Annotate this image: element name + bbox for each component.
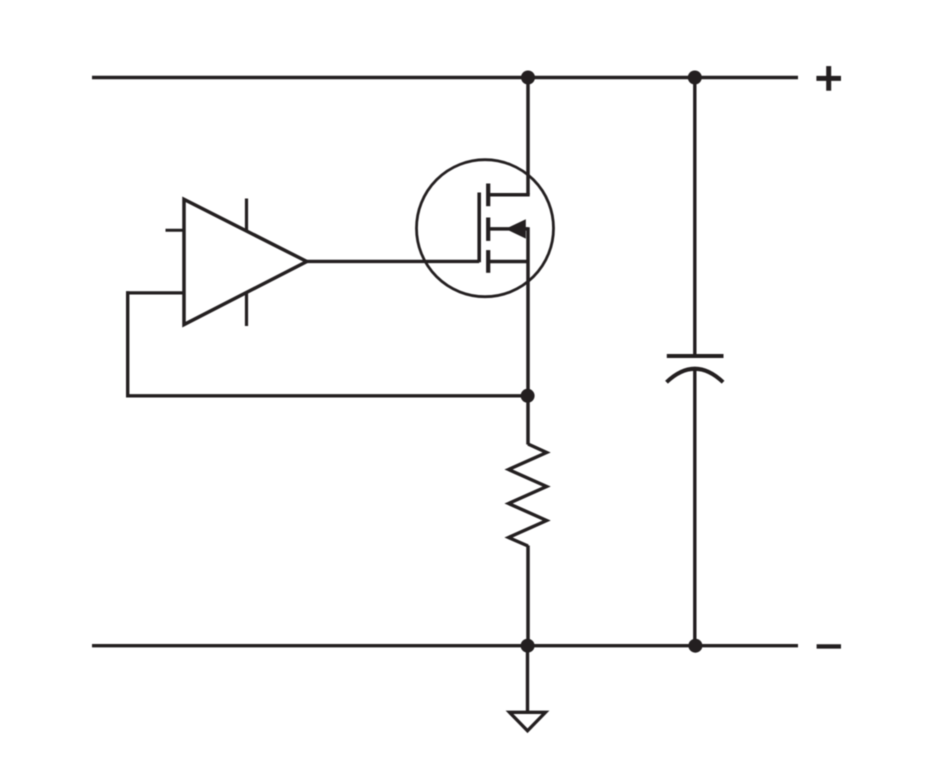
- node: junction dot, capacitor branch on top rail: [688, 71, 702, 85]
- wire: source/body lead down from MOSFET to feedback node: [526, 227, 530, 396]
- node: junction dot, source/feedback/resistor node: [521, 389, 535, 403]
- wire: V+ top supply rail: [92, 76, 798, 80]
- ground symbol: [510, 712, 546, 731]
- label: + positive terminal: [816, 66, 841, 91]
- wire: feedback left vertical: [126, 291, 129, 397]
- wire: drain lead from top rail to MOSFET: [526, 78, 530, 195]
- wire: resistor down to bottom rail: [526, 546, 530, 646]
- wire: feedback bottom horizontal to source node: [126, 394, 528, 397]
- resistor R1: [509, 444, 547, 546]
- capacitor C1 polarized: [667, 356, 724, 382]
- label: - negative terminal: [817, 644, 841, 648]
- transistor Q1 N-channel MOSFET: [417, 160, 554, 297]
- wire: node down to resistor: [526, 396, 530, 445]
- wire: top rail down to capacitor: [693, 78, 696, 357]
- wire: V- bottom supply rail: [92, 644, 798, 647]
- wire: ground stem: [526, 646, 529, 712]
- node: junction dot, drain on top rail: [521, 71, 535, 85]
- op-amp U1: [166, 199, 307, 327]
- wire: capacitor down to bottom rail: [693, 369, 696, 646]
- wire: non-inverting input lead: [126, 291, 184, 294]
- wire: gate lead from op-amp output: [306, 260, 479, 263]
- node: junction dot, capacitor branch on bottom rail: [688, 639, 702, 653]
- node: junction dot, resistor/ground on bottom rail: [521, 639, 535, 653]
